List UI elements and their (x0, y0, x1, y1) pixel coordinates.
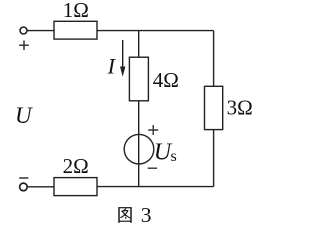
wire: bottom terminal to R2 (27, 186, 54, 188)
resistor 3Ω body (205, 86, 223, 129)
wire: bottom rail (97, 186, 214, 188)
wire: right branch top (213, 31, 215, 87)
resistor R1 1Ω body (54, 21, 97, 39)
wire: right branch bottom (213, 130, 215, 187)
terminal bottom-left (−) (20, 183, 28, 191)
resistor 4Ω body (129, 57, 148, 101)
svg-text:3Ω: 3Ω (227, 96, 253, 120)
terminal top-left (+) (20, 27, 27, 34)
svg-text:4Ω: 4Ω (153, 68, 179, 92)
plus sign at left input (19, 41, 29, 51)
svg-text:3: 3 (141, 203, 152, 227)
minus sign at left input (19, 177, 28, 179)
svg-text:U: U (15, 103, 33, 128)
resistor R2 2Ω body (54, 178, 97, 196)
plus sign of source (148, 125, 158, 135)
minus sign of source (148, 167, 157, 169)
caption 图 (drawn glyph) (119, 207, 131, 223)
wire: top terminal to R1 (27, 30, 54, 32)
svg-text:2Ω: 2Ω (63, 154, 89, 178)
svg-text:1Ω: 1Ω (63, 0, 89, 22)
wire: top rail (97, 30, 214, 32)
voltage source Us circle (124, 134, 154, 164)
wire: middle branch top (138, 31, 140, 58)
svg-text:s: s (171, 148, 177, 165)
wire: middle branch lower (through source) (138, 101, 140, 187)
current arrow I (122, 40, 124, 69)
